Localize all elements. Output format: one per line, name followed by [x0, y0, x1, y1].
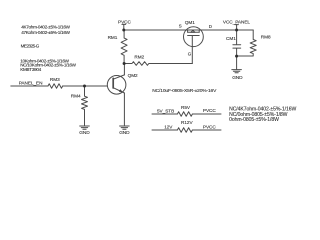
junction VCC_PANEL [235, 29, 238, 32]
power symbol VCC_PANEL [235, 25, 239, 30]
ground GND under QM2 [120, 126, 130, 129]
svg-text:4K7ohm-0402-±5%-1/16W: 4K7ohm-0402-±5%-1/16W [21, 25, 70, 30]
junction PVCC rail [122, 29, 125, 32]
ground GND under CM1 [232, 70, 242, 73]
svg-text:RM2: RM2 [134, 55, 144, 60]
svg-text:S: S [179, 24, 182, 29]
svg-text:GND: GND [232, 75, 243, 81]
wire PANEL_EN [11, 85, 48, 87]
junction CM1 bottom [235, 55, 238, 58]
resistor RM1 [121, 30, 127, 64]
wire RM3 to QM2 base [63, 85, 108, 87]
resistor RM2 [124, 62, 192, 66]
svg-text:RM3: RM3 [50, 77, 60, 82]
svg-text:D: D [209, 24, 212, 29]
wire PVCC stub row1 [192, 113, 221, 115]
svg-text:PVCC: PVCC [118, 19, 131, 24]
junction gate node [123, 62, 126, 65]
svg-text:5V_STB: 5V_STB [157, 109, 174, 114]
svg-text:PVCC: PVCC [203, 108, 216, 113]
power symbol PVCC [122, 24, 126, 30]
junction RM4 node [83, 85, 86, 88]
svg-text:GND: GND [79, 130, 90, 136]
svg-text:QM1: QM1 [185, 20, 195, 25]
wire QM2 collector [123, 64, 125, 75]
svg-text:KMBT3904: KMBT3904 [20, 67, 41, 72]
resistor R12V [177, 128, 192, 133]
svg-text:GND: GND [119, 130, 130, 136]
svg-text:RM1: RM1 [108, 35, 118, 40]
svg-text:47Kohm-0402-±5%-1/16W: 47Kohm-0402-±5%-1/16W [21, 30, 70, 35]
wire QM1 gate [191, 47, 193, 64]
capacitor CM1 [233, 30, 241, 56]
wire PVCC rail through QM1 S-D to VCC_PANEL and to RM8 [124, 29, 253, 31]
svg-text:0ohm-0805-±5%-1/8W: 0ohm-0805-±5%-1/8W [229, 117, 279, 123]
transistor QM2 [107, 75, 126, 94]
svg-text:12V: 12V [164, 125, 173, 130]
ground GND under RM4 [80, 126, 90, 129]
svg-text:R5V: R5V [181, 105, 191, 110]
svg-text:PVCC: PVCC [203, 124, 216, 129]
wire PVCC stub row2 [192, 129, 221, 131]
svg-text:RM8: RM8 [261, 34, 271, 39]
resistor RM3 [48, 84, 63, 88]
resistor R5V [177, 112, 192, 117]
svg-text:CM1: CM1 [226, 36, 236, 41]
svg-text:ME2325-G: ME2325-G [21, 44, 40, 49]
wire QM2 emitter [123, 93, 125, 125]
resistor RM4 [82, 86, 88, 125]
svg-text:QM2: QM2 [128, 73, 138, 78]
wire VCC_PANEL node to ground [236, 56, 238, 69]
wire 12V stub [152, 129, 177, 131]
svg-text:PANEL_EN: PANEL_EN [19, 81, 43, 86]
wire 5V_STB stub [152, 113, 177, 115]
svg-text:R12V: R12V [181, 120, 193, 125]
mosfet QM1 [184, 27, 204, 47]
resistor RM8 [237, 30, 257, 56]
svg-text:RM4: RM4 [71, 93, 81, 98]
svg-text:VCC_PANEL: VCC_PANEL [223, 20, 251, 25]
svg-text:NC/10uF-0805-X5R-±20%-16V: NC/10uF-0805-X5R-±20%-16V [152, 88, 217, 94]
